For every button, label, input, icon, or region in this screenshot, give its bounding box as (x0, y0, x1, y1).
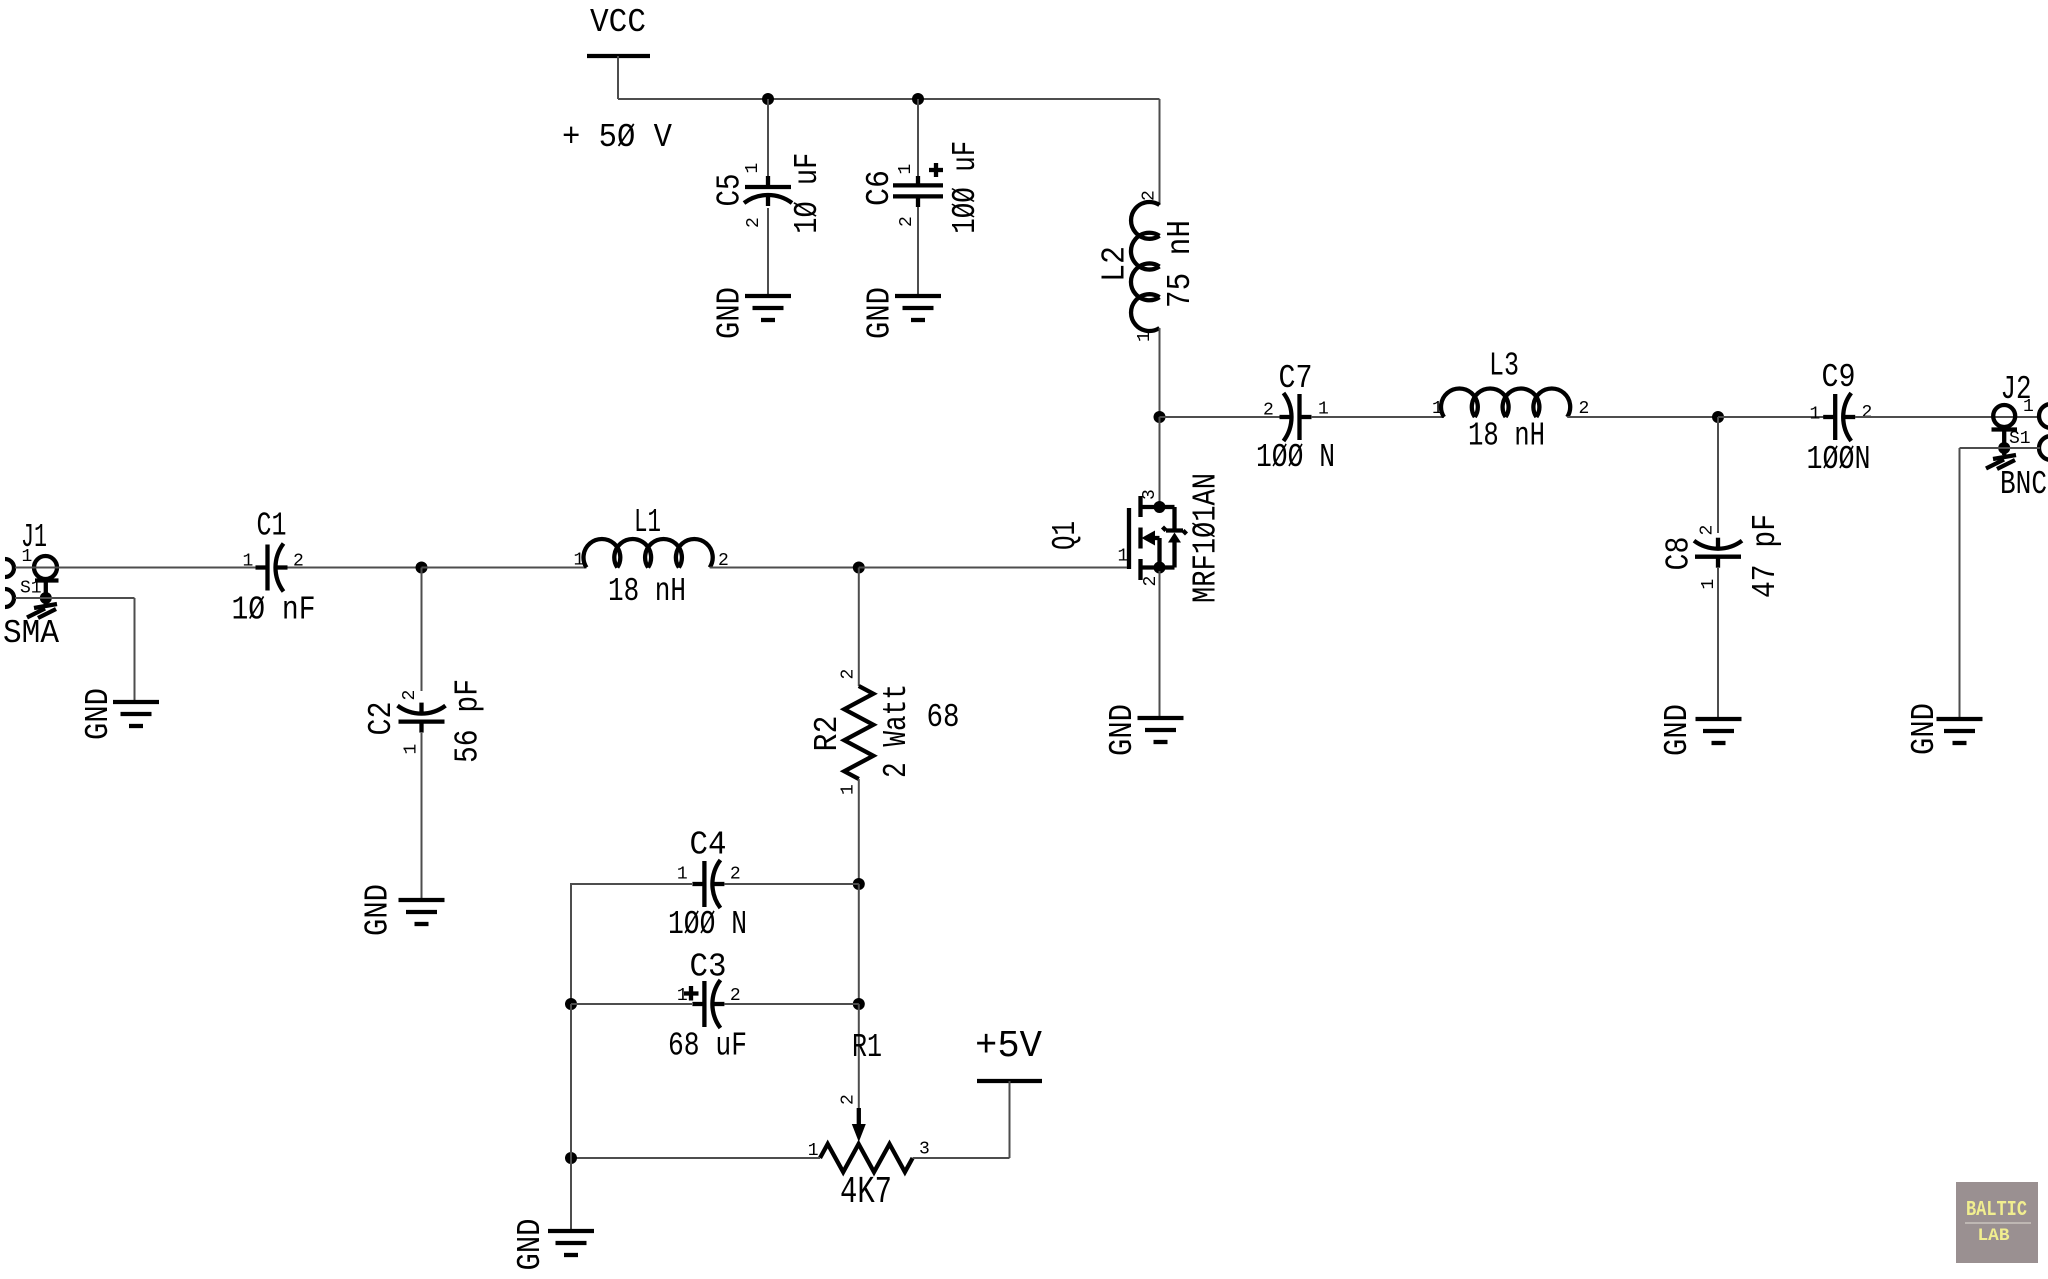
wire VCC rail down to L2 pin 2 (1159, 99, 1161, 205)
svg-text:1: 1 (1432, 399, 1443, 419)
inductor L1 (583, 539, 712, 567)
node C6/VCC junction (912, 93, 924, 105)
capacitor C2 (398, 703, 446, 733)
svg-text:C7: C7 (1279, 360, 1313, 397)
ground GND (J1) (113, 702, 159, 726)
svg-text:SMA: SMA (3, 615, 59, 652)
svg-text:4K7: 4K7 (840, 1171, 892, 1214)
svg-text:1: 1 (1118, 547, 1129, 567)
svg-text:2: 2 (400, 690, 420, 701)
svg-text:2 Watt: 2 Watt (878, 684, 915, 778)
power symbol VCC (587, 4, 650, 56)
svg-text:1: 1 (896, 164, 916, 175)
wire left rail to R1 pin 1 (571, 1157, 820, 1159)
svg-text:1: 1 (243, 552, 254, 572)
wire +5V stem (1009, 1081, 1011, 1158)
polarity + of C3 (684, 986, 699, 1001)
svg-text:+ 5Ø V: + 5Ø V (562, 119, 672, 156)
svg-text:1: 1 (839, 784, 859, 795)
svg-text:2: 2 (1862, 403, 1873, 423)
wire C1 to C2 node (288, 567, 422, 569)
svg-text:3: 3 (1140, 489, 1160, 500)
node C2 junction (416, 562, 428, 574)
svg-text:L3: L3 (1489, 348, 1519, 385)
wire Q1 source to GND (1159, 571, 1161, 718)
svg-text:2: 2 (730, 865, 741, 885)
chassis hatch J2 (1986, 448, 2016, 469)
svg-text:GND: GND (360, 884, 397, 936)
svg-text:1: 1 (574, 551, 585, 571)
wire C7 to L3 (1311, 416, 1444, 418)
svg-text:18 nH: 18 nH (608, 573, 686, 610)
wire C3 pin 2 to node (724, 1003, 858, 1005)
power symbol +5V (975, 1025, 1042, 1081)
wire node to C2 pin 2 (421, 568, 423, 692)
polarity + of C6 (929, 163, 943, 177)
wire L3 to C8 node (1567, 416, 1718, 418)
svg-text:C3: C3 (690, 949, 727, 986)
svg-text:C4: C4 (690, 827, 727, 864)
wire C6 pin 2 to GND (917, 207, 919, 296)
capacitor C3 (polarized) (692, 980, 724, 1028)
svg-text:18 nH: 18 nH (1468, 418, 1545, 455)
svg-text:GND: GND (1104, 704, 1141, 756)
svg-text:1: 1 (677, 986, 688, 1006)
svg-text:1Ø nF: 1Ø nF (232, 592, 316, 629)
wire C4 left rail corner (571, 884, 692, 1004)
svg-text:1ØØN: 1ØØN (1807, 441, 1871, 478)
svg-text:+5V: +5V (975, 1025, 1042, 1068)
ground GND (Q1) (1138, 718, 1184, 742)
capacitor C5 (744, 176, 792, 206)
svg-text:Q1: Q1 (1047, 521, 1084, 550)
potentiometer R1 element (820, 1144, 913, 1172)
capacitor C9 (1823, 393, 1855, 441)
svg-text:2: 2 (1141, 576, 1161, 587)
node left rail / R1 (565, 1152, 577, 1164)
svg-text:1: 1 (1810, 405, 1821, 425)
connector J1 (SMA) (5, 556, 59, 607)
svg-text:1: 1 (743, 163, 763, 174)
svg-text:C5: C5 (712, 174, 749, 207)
svg-text:GND: GND (1659, 704, 1696, 756)
node drain/output junction (1154, 411, 1166, 423)
svg-text:BALTIC: BALTIC (1966, 1199, 2027, 1222)
node R2/gate junction (853, 562, 865, 574)
svg-text:GND: GND (80, 688, 117, 740)
svg-text:1Ø uF: 1Ø uF (789, 153, 826, 234)
node C4 junction (853, 878, 865, 890)
svg-text:R1: R1 (852, 1029, 882, 1066)
wire left rail to GND (570, 1158, 572, 1231)
wire node to C9 (1718, 416, 1830, 418)
node C3 junction left (565, 998, 577, 1010)
svg-text:GND: GND (1906, 703, 1943, 755)
svg-text:3: 3 (919, 1140, 930, 1160)
logo BALTIC LAB (1956, 1182, 2038, 1263)
svg-text:2: 2 (1263, 401, 1274, 421)
svg-text:47 pF: 47 pF (1747, 514, 1784, 598)
node C3 junction right (853, 998, 865, 1010)
wire C8 pin 1 to GND (1717, 568, 1719, 719)
capacitor C6 (polarized) (893, 176, 943, 207)
svg-text:GND: GND (862, 287, 899, 339)
wire VCC to C5 pin 1 (767, 99, 769, 177)
wire VCC to C6 pin 1 (917, 99, 919, 177)
node J2 shield junction (1998, 442, 2010, 454)
svg-text:2: 2 (839, 1094, 859, 1105)
connector J2 (BNC) (1992, 404, 2048, 460)
wire C2 pin 1 to GND (421, 733, 423, 900)
svg-text:1ØØ N: 1ØØ N (1256, 439, 1335, 476)
node Q1 source junction (1154, 562, 1166, 574)
svg-text:VCC: VCC (590, 4, 646, 41)
svg-text:1ØØ N: 1ØØ N (668, 906, 747, 943)
svg-text:56 pF: 56 pF (450, 679, 487, 763)
ground GND (C5) (745, 296, 791, 320)
wire J2 shield row (1960, 447, 2041, 449)
svg-text:S1: S1 (2009, 429, 2031, 449)
wire node down to Q1 drain (1159, 417, 1161, 503)
chassis hatch J1 (27, 598, 57, 618)
wire down to GND (J2) (1959, 448, 1961, 719)
wire node to C8 pin 2 (1717, 417, 1719, 533)
node Q1 drain junction (1154, 501, 1166, 513)
capacitor C4 (692, 860, 724, 908)
svg-text:1: 1 (22, 547, 33, 567)
resistor R2 (844, 686, 873, 779)
svg-text:75 nH: 75 nH (1162, 220, 1199, 308)
wire node to R1 wiper (858, 1004, 860, 1108)
potentiometer R1 wiper arrow (857, 1108, 861, 1124)
svg-text:1: 1 (1699, 579, 1719, 590)
wire left rail to C3 (571, 1003, 692, 1005)
node C5/VCC junction (762, 93, 774, 105)
wire down to GND (J1) (134, 598, 136, 702)
svg-text:L2: L2 (1097, 246, 1134, 282)
wire R2 pin 1 to C4 node (858, 779, 860, 884)
wire node to L1 (422, 567, 587, 569)
capacitor C7 (1280, 393, 1312, 441)
capacitor C1 (256, 544, 288, 592)
svg-text:C8: C8 (1661, 537, 1698, 571)
ground GND (C2) (399, 900, 445, 924)
transistor Q1 MRF101AN (1129, 496, 1141, 580)
node C8 junction (1712, 411, 1724, 423)
svg-text:R2: R2 (809, 716, 846, 752)
wire VCC rail (618, 98, 1160, 100)
svg-text:2: 2 (839, 669, 859, 680)
wire VCC stem (617, 56, 619, 99)
svg-text:C2: C2 (363, 702, 400, 736)
svg-text:S1: S1 (20, 579, 42, 599)
wire L1 to R2 node (710, 567, 859, 569)
svg-text:1ØØ uF: 1ØØ uF (947, 141, 984, 234)
svg-text:1: 1 (1135, 331, 1155, 342)
wire node to C7 (1160, 416, 1281, 418)
wire C5 pin 2 to GND (767, 208, 769, 296)
ground GND (bottom) (548, 1231, 594, 1255)
wire node to Q1 gate (859, 567, 1127, 569)
svg-text:MRF1Ø1AN: MRF1Ø1AN (1188, 473, 1225, 603)
svg-text:LAB: LAB (1978, 1226, 2010, 1246)
ground GND (C6) (895, 296, 941, 320)
wire left rail middle (570, 1004, 572, 1158)
wire node to R2 pin 2 (858, 568, 860, 687)
svg-text:68: 68 (927, 699, 960, 736)
wire J1 to C1 (15, 567, 258, 569)
svg-text:2: 2 (744, 217, 764, 228)
svg-text:1: 1 (402, 744, 422, 755)
svg-text:1: 1 (677, 865, 688, 885)
svg-text:C1: C1 (257, 508, 287, 545)
svg-text:2: 2 (897, 216, 917, 227)
svg-text:1: 1 (2023, 397, 2034, 417)
wire L2 pin 1 to drain node (1159, 328, 1161, 417)
inductor L2 (1131, 202, 1160, 331)
svg-text:GND: GND (512, 1219, 549, 1271)
wire C4 pin 2 to node (724, 883, 858, 885)
node J1 shield junction (40, 592, 52, 604)
svg-text:C6: C6 (861, 170, 898, 206)
capacitor C8 (1694, 538, 1742, 568)
wire C9 to J2 (1855, 416, 2040, 418)
svg-text:L1: L1 (634, 504, 661, 541)
svg-text:C9: C9 (1822, 359, 1856, 396)
svg-text:GND: GND (712, 287, 749, 339)
inductor L3 (1441, 389, 1570, 417)
svg-text:2: 2 (1698, 525, 1718, 536)
svg-text:2: 2 (1140, 190, 1160, 201)
wire J1 shield (15, 597, 135, 599)
svg-text:68 uF: 68 uF (668, 1028, 747, 1065)
wire R1 pin 3 to +5V (913, 1157, 1010, 1159)
wire down to C3 node (858, 884, 860, 1004)
ground GND (C8) (1696, 719, 1742, 743)
ground GND (J2) (1937, 719, 1983, 743)
svg-text:BNC: BNC (2000, 466, 2047, 503)
